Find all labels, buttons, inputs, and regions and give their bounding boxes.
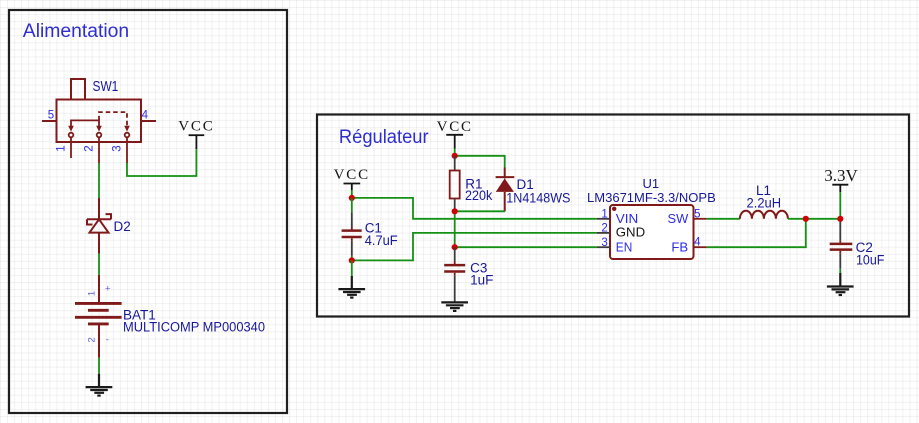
- svg-text:+: +: [105, 284, 111, 295]
- wire 3.3V to output node: [839, 192, 841, 219]
- resistor R1: [450, 156, 460, 212]
- svg-text:Régulateur: Régulateur: [339, 127, 429, 148]
- svg-text:Alimentation: Alimentation: [23, 21, 129, 42]
- svg-text:1: 1: [601, 209, 607, 221]
- wire R1 bottom down to C3: [454, 211, 456, 247]
- svg-text:3.3V: 3.3V: [824, 166, 858, 185]
- wire SW to L1: [707, 218, 740, 220]
- pin 3 stub: [597, 246, 610, 248]
- capacitor C1: [342, 198, 362, 261]
- VCC symbol (above C1): [344, 184, 361, 191]
- diode D2 (Schottky): [87, 198, 111, 254]
- sheet frame Regulateur: [317, 115, 909, 317]
- VCC symbol (left sheet): [189, 135, 205, 149]
- junction node R1/D1: [452, 208, 458, 214]
- svg-text:MULTICOMP MP000340: MULTICOMP MP000340: [123, 320, 265, 335]
- wire L1 to output node: [788, 218, 840, 220]
- svg-text:4: 4: [142, 109, 149, 121]
- wire VCC to D1 cathode: [455, 156, 505, 168]
- wire C2 to ground: [839, 269, 841, 273]
- svg-text:220k: 220k: [465, 188, 493, 203]
- power symbol 3.3V: [832, 185, 848, 193]
- svg-text:D2: D2: [114, 219, 131, 234]
- svg-text:1: 1: [56, 145, 68, 151]
- wire C1 bottom to GND pin: [352, 233, 597, 261]
- svg-text:2: 2: [87, 337, 98, 342]
- pin 1 stub: [597, 218, 610, 220]
- svg-text:2: 2: [601, 223, 607, 235]
- svg-text:FB: FB: [671, 239, 688, 254]
- junction node above R1: [452, 153, 458, 159]
- switch SW1 dashed throw bracket: [99, 112, 127, 126]
- inductor L1: [740, 211, 788, 219]
- switch SW1 pin stubs: [71, 138, 127, 163]
- svg-text:-: -: [106, 335, 109, 346]
- svg-text:VCC: VCC: [334, 167, 370, 183]
- svg-text:VCC: VCC: [178, 119, 214, 135]
- switch SW1 solid throw bracket: [71, 120, 99, 126]
- svg-text:1uF: 1uF: [470, 273, 493, 288]
- svg-text:VCC: VCC: [437, 119, 473, 135]
- capacitor C2: [830, 219, 853, 269]
- wire C3 top to EN pin: [455, 246, 597, 248]
- wire D2 to BAT1: [98, 254, 100, 275]
- svg-text:10uF: 10uF: [856, 253, 884, 268]
- junction node at C1 bottom: [349, 257, 355, 263]
- diode D1: [496, 168, 515, 212]
- svg-text:3: 3: [112, 145, 124, 151]
- pin 5 stub: [694, 218, 707, 220]
- switch SW1 arrowheads: [68, 126, 130, 132]
- switch SW1 contacts: [69, 133, 130, 138]
- switch SW1 body: [42, 79, 156, 142]
- pin 2 stub: [597, 232, 610, 234]
- pin 4 stub: [694, 246, 707, 248]
- svg-text:2: 2: [84, 145, 96, 151]
- svg-text:4: 4: [694, 237, 701, 249]
- wire BAT1 to ground: [98, 358, 100, 374]
- svg-text:1: 1: [87, 291, 98, 296]
- capacitor C3: [444, 247, 465, 302]
- battery BAT1: [75, 275, 122, 358]
- ground symbol under C1: [351, 260, 353, 276]
- wire VCC to VIN: [352, 198, 597, 219]
- svg-text:3: 3: [601, 237, 607, 249]
- junction node output: [837, 216, 843, 222]
- svg-text:5: 5: [694, 208, 700, 220]
- svg-text:GND: GND: [616, 225, 645, 240]
- svg-text:LM3671MF-3.3/NOPB: LM3671MF-3.3/NOPB: [587, 190, 716, 205]
- svg-text:1N4148WS: 1N4148WS: [506, 190, 570, 205]
- VCC symbol (above R1): [446, 135, 463, 149]
- ground symbol under C3: [441, 302, 468, 311]
- svg-text:U1: U1: [642, 176, 659, 191]
- ground symbol (left sheet): [86, 374, 113, 396]
- svg-text:2.2uH: 2.2uH: [747, 196, 782, 211]
- svg-text:SW: SW: [668, 211, 689, 226]
- junction node C3 top: [452, 244, 458, 250]
- wire FB feedback: [707, 219, 806, 247]
- ground symbol under C2: [827, 273, 854, 295]
- svg-text:SW1: SW1: [93, 78, 119, 95]
- svg-text:VIN: VIN: [616, 211, 639, 226]
- svg-text:5: 5: [48, 109, 54, 121]
- wire pin3 to VCC: [127, 149, 196, 176]
- svg-text:4.7uF: 4.7uF: [365, 233, 398, 248]
- svg-text:EN: EN: [616, 239, 633, 254]
- sheet frame Alimentation: [9, 10, 287, 413]
- wire pin2 down: [98, 163, 100, 198]
- junction node at C1 top: [349, 195, 355, 201]
- junction node FB tap: [803, 216, 809, 222]
- IC U1 body: [610, 205, 694, 259]
- IC U1 pin-1 mark: [612, 207, 616, 211]
- wire R1 bottom to D1 anode: [455, 210, 505, 212]
